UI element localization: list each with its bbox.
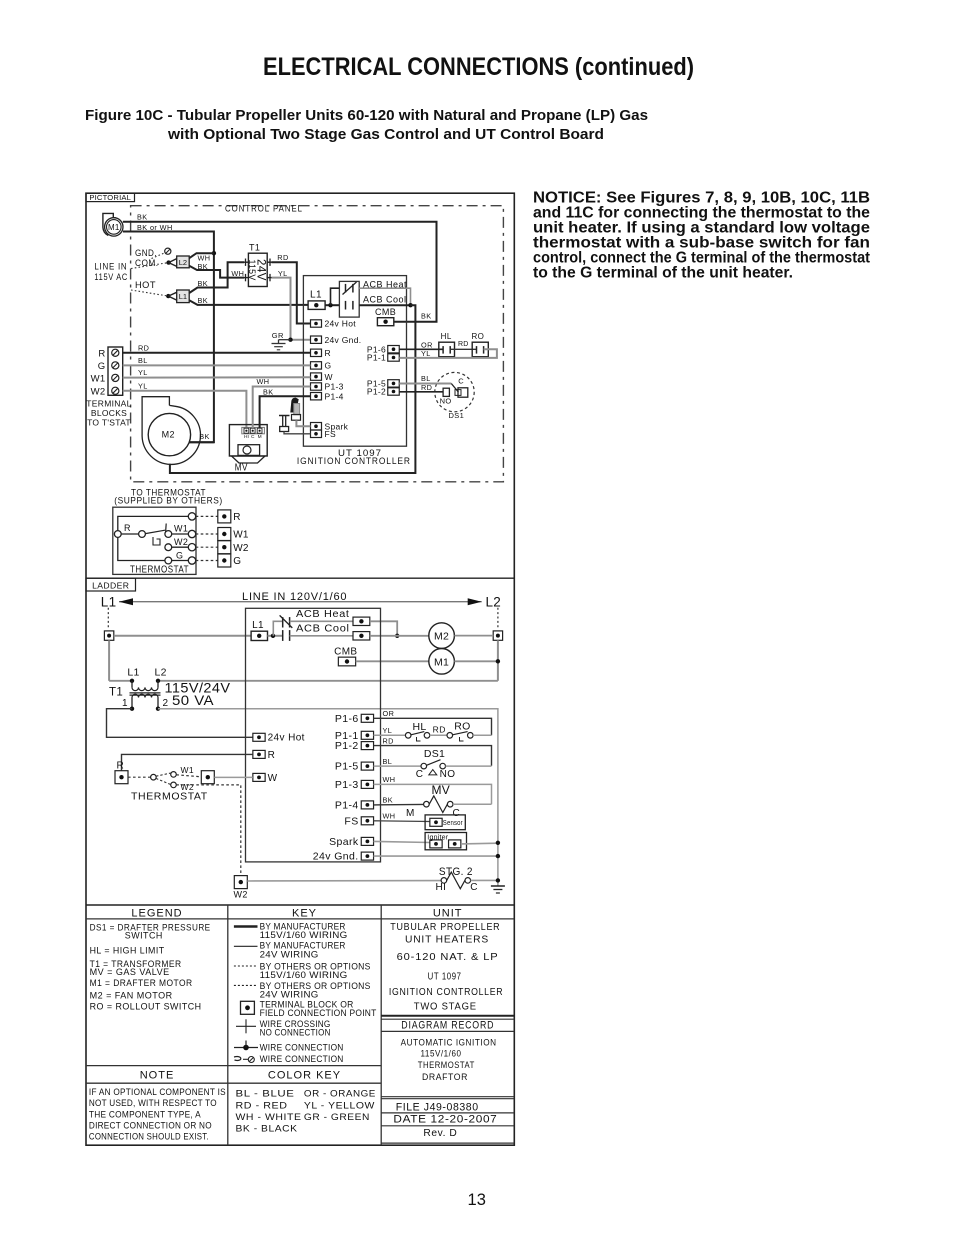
svg-text:ELECTRICAL CONNECTIONS (contin: ELECTRICAL CONNECTIONS (continued) [263,53,694,81]
svg-text:24v Hot: 24v Hot [268,733,305,744]
lead COM dotted [131,263,167,269]
svg-text:W2: W2 [174,537,188,547]
controller terminal 24v Gnd. [311,336,322,343]
svg-text:L1: L1 [179,292,187,301]
svg-text:BL - BLUE: BL - BLUE [236,1089,295,1100]
svg-text:WIRE CONNECTION: WIRE CONNECTION [260,1054,344,1065]
rollout switch RO [472,342,488,357]
svg-text:TERMINAL: TERMINAL [86,398,131,408]
dashed lead W2 [196,546,218,548]
svg-text:BL: BL [383,757,393,766]
svg-text:HL: HL [412,721,426,733]
controller terminal P1-4 [311,393,322,400]
svg-text:TWO STAGE: TWO STAGE [414,1001,477,1012]
key wire connection dot symbol [234,1047,258,1049]
wire cool out to M2 [370,635,429,637]
thermostat dashed R to pivot [128,776,151,778]
wire R (RD) [123,352,311,354]
ACB heat branch riser [273,621,282,636]
controller terminal 24v Gnd. (ladder) [361,852,373,860]
svg-text:BK: BK [137,213,148,222]
wire M2 to vertical [189,441,214,443]
svg-text:with Optional Two Stage Gas Co: with Optional Two Stage Gas Control and … [167,126,604,143]
svg-text:RO: RO [454,720,470,732]
svg-text:HI: HI [436,882,447,893]
T1 core [130,692,161,694]
thermostat wire W2 [172,546,189,548]
svg-text:W2: W2 [91,386,106,397]
high limit HL switch [439,342,455,357]
svg-text:DRAFTOR: DRAFTOR [422,1072,468,1082]
svg-text:RO: RO [471,332,484,341]
svg-text:50 VA: 50 VA [172,693,214,708]
T1 secondary dots [130,707,134,711]
dashed W1 to terminal [176,775,201,777]
key dashed 24V [234,984,258,986]
svg-text:RD: RD [421,383,432,392]
T1 primary winding [131,681,133,688]
thermostat wire W1 [172,533,189,535]
field terminal G [218,554,231,567]
wire G (BL) [123,364,311,366]
key thick line [234,925,258,927]
controller terminal P1-4 (ladder) [361,801,373,809]
svg-text:FILE J49-08380: FILE J49-08380 [396,1101,479,1113]
svg-text:CMB: CMB [334,646,357,657]
svg-text:P1-2: P1-2 [367,387,386,397]
controller terminal 24v Hot (ladder) [253,733,265,741]
arrowhead L1 [119,598,133,605]
svg-text:G: G [325,361,332,371]
note header underline [86,1082,381,1084]
outer drawing border [86,193,514,1145]
svg-text:115V/1/60: 115V/1/60 [421,1048,462,1058]
svg-text:GR - GREEN: GR - GREEN [304,1112,370,1123]
wire HL-RO (ladder) [430,734,447,736]
fan motor M2 housing [142,397,200,465]
DS1 rung BL wire [374,765,422,767]
svg-text:THE COMPONENT TYPE, A: THE COMPONENT TYPE, A [89,1109,201,1119]
left rail [108,640,110,681]
svg-text:M1: M1 [434,656,449,668]
wire 24v Gnd to rail [374,855,498,857]
table header underline [86,918,381,920]
secondary-2 wire / 24V rail [158,709,498,886]
svg-text:YL: YL [138,368,148,377]
right rail [497,640,499,681]
junction M1 rail [496,659,500,663]
svg-text:YL: YL [138,381,148,390]
wire RD T1 to 24v Hot [272,262,311,323]
key wire crossing symbol [236,1025,256,1027]
file box top double line [381,1096,514,1098]
svg-text:BK: BK [198,279,209,288]
terminal block screw G [112,362,119,369]
T1 secondary winding [132,694,158,697]
svg-text:DS1: DS1 [424,748,445,760]
HL contact (ladder) [405,733,411,739]
wire M2 to L2 rail [454,635,493,637]
svg-text:M2: M2 [162,429,175,439]
controller terminal FS [311,430,322,437]
svg-text:NOTE: NOTE [140,1069,175,1081]
primary rung [109,680,132,682]
junction after fuse [328,303,332,307]
terminal block screw W1 [112,374,119,381]
controller terminal FS (ladder) [361,817,373,825]
wire BK P1-4 to MV M [260,396,311,428]
connector L1 [168,292,176,296]
file/date divider [381,1112,514,1114]
L2 rail terminal [493,631,502,640]
ground screw (GND.) [165,248,171,254]
key wire connection loop symbol [234,1057,241,1061]
svg-text:OR - ORANGE: OR - ORANGE [304,1089,376,1100]
junction node L2-M1-M2 [212,251,216,255]
ladder/tables divider [86,904,514,906]
svg-text:L2: L2 [179,258,187,267]
controller terminal W (ladder) [253,773,265,781]
field terminal R (ladder) [115,771,128,784]
svg-text:FIELD CONNECTION POINT: FIELD CONNECTION POINT [260,1008,377,1019]
svg-text:L1: L1 [310,290,322,301]
svg-text:BK: BK [383,796,394,805]
junction after fuse (ladder) [268,635,283,637]
field terminal W1 [218,528,231,541]
controller terminal Spark [311,423,322,430]
svg-text:NOT USED, WITH RESPECT TO: NOT USED, WITH RESPECT TO [89,1098,217,1108]
terminal block screw R [112,349,119,356]
chassis ground GR symbol [279,339,291,341]
svg-text:1: 1 [122,698,128,709]
L1 rail terminal [104,631,113,640]
svg-text:THERMOSTAT: THERMOSTAT [418,1060,475,1070]
svg-text:FS: FS [344,815,358,827]
wire L1 BK upper to T1 [189,262,244,293]
svg-text:BK: BK [198,296,209,305]
svg-text:IF AN OPTIONAL COMPONENT IS: IF AN OPTIONAL COMPONENT IS [89,1087,226,1097]
wire ACB cool out [359,304,410,306]
svg-text:SWITCH: SWITCH [125,931,163,942]
pictorial/ladder divider [86,577,514,579]
thermostat box [113,507,196,574]
wire W2 (YL) to MV HI [123,391,247,428]
svg-text:W1: W1 [91,373,106,384]
wire igniter to rail [461,842,498,845]
junction heat/cool [395,634,399,638]
junction ACB out [408,303,412,307]
thermostat wire top R [118,516,189,530]
svg-text:RD: RD [138,343,149,352]
svg-text:HI: HI [244,434,249,440]
svg-text:OR: OR [383,709,395,718]
thermostat blade W1 (ladder) [156,773,171,776]
svg-text:L1: L1 [127,667,139,679]
svg-text:C: C [458,377,464,386]
controller terminal R [311,349,322,356]
thermostat G contact [165,557,172,564]
controller terminal G [311,362,322,369]
controller terminal P1-3 (ladder) [361,780,373,788]
line-in arrow line [119,601,482,603]
ACB Heat terminal (ladder) [353,617,370,625]
L1 fuse terminal [308,301,325,310]
junction gnd rail [496,854,500,858]
svg-text:WIRE CONNECTION: WIRE CONNECTION [260,1042,344,1053]
LADDER section label [86,578,136,591]
controller terminal P1-1 (ladder) [361,731,373,739]
thermostat switch blade [145,530,165,533]
svg-text:W: W [268,773,278,784]
svg-text:115V/1/60 WIRING: 115V/1/60 WIRING [260,970,348,981]
controller terminal P1-1 [388,354,400,361]
svg-text:M1: M1 [108,223,120,232]
transformer T1 body [248,253,267,286]
svg-text:W2: W2 [233,543,249,554]
sensor terminal (ladder) [430,818,442,826]
svg-text:LEGEND: LEGEND [131,907,182,919]
svg-text:115V: 115V [247,259,257,280]
control panel dashed enclosure [131,206,504,482]
wire M1 BK to CMB [123,222,437,322]
wire L2 BK to T1 [189,266,244,278]
PICTORIAL section label [86,193,135,201]
svg-text:P1-4: P1-4 [335,799,359,811]
svg-text:GND.: GND. [135,248,157,258]
svg-text:24V WIRING: 24V WIRING [260,949,319,960]
DS1 C contact [458,388,468,397]
svg-text:NO: NO [440,397,452,406]
ignition controller UT 1097 box [303,276,406,447]
thermostat W2 contact [165,544,172,551]
diagram record box top [381,1018,514,1020]
svg-text:UT 1097: UT 1097 [428,971,462,982]
thermostat terminal W1 [188,530,195,537]
wire Spark [296,420,310,426]
L1 dotted drop [107,608,109,630]
diagram record box bottom [381,1030,514,1032]
RO contact (ladder) [447,733,453,739]
T1 primary dots [130,679,134,683]
wire W1 (YL) [123,376,311,378]
earth ground symbol [491,885,505,887]
svg-text:W: W [325,372,333,382]
ACB switch box [339,281,359,317]
controller terminal P1-5 [388,380,400,387]
UNIT header underline [381,918,514,920]
wire WH P1-3 to MV C [253,387,311,429]
svg-text:NO CONNECTION: NO CONNECTION [260,1028,331,1039]
DS1 contacts (ladder) [421,763,427,769]
node HOT [166,294,170,298]
wire YL T1 to 24v Gnd [272,278,311,340]
STG2 rung wire [247,880,441,882]
STG2 coil [441,878,447,884]
svg-text:P1-5: P1-5 [335,761,359,773]
dashed lead G [196,560,218,562]
svg-text:Figure 10C - Tubular Propeller: Figure 10C - Tubular Propeller Units 60-… [85,107,648,124]
controller box (ladder) [246,608,381,862]
svg-text:Spark: Spark [329,836,359,848]
thermostat wire G [172,560,189,562]
svg-text:THERMOSTAT: THERMOSTAT [131,791,208,803]
DS1 diaphragm [429,770,437,775]
wire fuse to ACB [325,304,339,306]
svg-text:GR: GR [272,331,284,340]
unit divider thick [381,1015,514,1017]
thermostat R input circle [114,531,121,538]
date divider [381,1125,514,1127]
dashed W2 route [176,785,241,876]
thermostat wire R to pivot [121,533,138,535]
pressure switch DS1 circle [435,372,474,411]
DS1 blade [451,384,458,393]
svg-text:YL: YL [421,349,431,358]
MV terminal strip [242,427,265,433]
svg-text:P1-4: P1-4 [325,391,344,401]
svg-text:Sensor: Sensor [443,818,463,827]
svg-text:115V AC: 115V AC [94,272,128,282]
svg-text:KEY: KEY [292,907,317,919]
svg-text:BL: BL [421,374,431,383]
wire ACB heat out (ladder) [370,621,397,636]
igniter terminal 1 [430,840,442,848]
DS1 rung top wire [374,746,492,766]
svg-text:M1 = DRAFTER MOTOR: M1 = DRAFTER MOTOR [90,978,193,989]
svg-text:G: G [98,361,106,372]
field terminal W2 [218,541,231,554]
field terminal W2 (ladder) [234,876,247,889]
thermostat W1 contact (ladder) [171,772,177,778]
svg-text:UNIT HEATERS: UNIT HEATERS [405,934,489,945]
wire ACB to M2 bottom [170,305,416,473]
svg-text:60-120 NAT. & LP: 60-120 NAT. & LP [397,952,499,963]
svg-text:IGNITION CONTROLLER: IGNITION CONTROLLER [297,456,411,467]
svg-text:to the G terminal of the unit: to the G terminal of the unit heater. [533,265,793,282]
svg-text:R: R [98,348,105,359]
svg-text:R: R [124,523,131,533]
svg-text:RO = ROLLOUT SWITCH: RO = ROLLOUT SWITCH [90,1001,202,1012]
dashed lead W1 [196,533,218,535]
svg-text:LINE IN: LINE IN [94,261,127,271]
key dashed 115V [234,965,258,967]
thermostat pivot circle [139,531,146,538]
drafter motor M1 (ladder) [429,649,455,675]
drafter motor M1 circle [105,218,123,236]
controller terminal R (ladder) [253,750,265,758]
wire FS to sensor [374,820,430,823]
svg-text:STG. 2: STG. 2 [439,866,473,878]
svg-text:R: R [117,760,125,771]
svg-text:YL: YL [383,726,393,735]
sensor box (ladder) [425,815,465,830]
svg-text:WH - WHITE: WH - WHITE [236,1112,302,1123]
svg-text:W1: W1 [233,530,249,541]
gas valve MV body [229,425,267,456]
junction spark rail [496,841,500,845]
wire heat to terminal [290,620,354,622]
rev box bottom [381,1142,514,1144]
svg-text:M2 = FAN MOTOR: M2 = FAN MOTOR [90,990,173,1001]
svg-text:MV: MV [235,462,248,473]
CMB terminal (panel) [377,318,393,326]
MV actuator box [238,445,260,456]
ACB Cool terminal (ladder) [353,632,370,640]
svg-text:HL: HL [441,332,452,341]
key terminal block symbol [241,1001,255,1014]
thermostat W1 contact [165,531,172,538]
svg-text:G: G [176,550,183,560]
svg-text:M: M [406,808,415,819]
svg-text:AUTOMATIC IGNITION: AUTOMATIC IGNITION [401,1037,497,1047]
svg-text:WH: WH [231,269,244,278]
svg-text:NO: NO [440,769,456,780]
thermostat terminal W2 [188,544,195,551]
R branch wire [122,754,253,770]
wire M1 to L2 rail [454,660,498,662]
svg-text:ACB Cool: ACB Cool [296,624,350,635]
svg-text:PICTORIAL: PICTORIAL [89,193,131,202]
svg-text:24v Gnd.: 24v Gnd. [313,851,359,863]
controller terminal P1-2 [388,388,400,395]
wire RO to corner [473,734,491,736]
L2 dotted drop [497,608,499,630]
note header line [86,1065,381,1067]
rung1 wire L1 to fuse [114,635,251,637]
controller terminal P1-3 [311,383,322,390]
igniter terminal 2 [449,840,461,848]
controller terminal Spark (ladder) [361,837,373,845]
svg-text:2: 2 [163,698,169,709]
table column divider 2 [380,905,382,1145]
wire M1 BK-or-WH / M2 lead [123,232,214,443]
svg-text:M: M [258,434,262,440]
thermostat wire bottom G [118,537,165,560]
controller terminal P1-5 (ladder) [361,762,373,770]
svg-text:Rev. D: Rev. D [423,1127,457,1139]
svg-text:CMB: CMB [375,307,396,317]
wire W1 terminal to W [214,776,253,778]
svg-text:LADDER: LADDER [92,580,129,590]
wire Spark to igniter [374,841,430,842]
field terminal W1 (ladder) [201,771,214,784]
HL/RO rung top wire [374,718,492,735]
arrowhead L2 [468,598,482,605]
table column divider 1 [227,905,229,1145]
terminal block screw W2 [112,387,119,394]
wire P1-5 BL to DS1 [399,383,451,385]
svg-text:P1-1: P1-1 [367,353,386,363]
svg-text:(SUPPLIED BY OTHERS): (SUPPLIED BY OTHERS) [114,496,223,507]
svg-text:TO T'STAT: TO T'STAT [87,417,131,427]
T1 pin YL [267,277,271,279]
ACB heat contact [345,284,347,293]
controller terminal P1-6 [388,346,400,353]
drafter motor M1 housing [103,213,116,235]
svg-text:L2: L2 [486,595,502,610]
svg-text:BL: BL [138,356,148,365]
ACB heat contact bars [282,617,284,627]
dashed lead R [196,515,218,517]
ground GR junction [288,338,292,342]
svg-text:TUBULAR PROPELLER: TUBULAR PROPELLER [390,922,500,933]
wire heat branch riser [331,288,340,305]
wire L2 WH to M1 lead [189,253,214,258]
svg-text:24v Hot: 24v Hot [325,319,357,329]
svg-text:COLOR KEY: COLOR KEY [268,1069,341,1081]
MV coil (ladder) [424,801,430,807]
svg-text:L2: L2 [155,667,167,679]
